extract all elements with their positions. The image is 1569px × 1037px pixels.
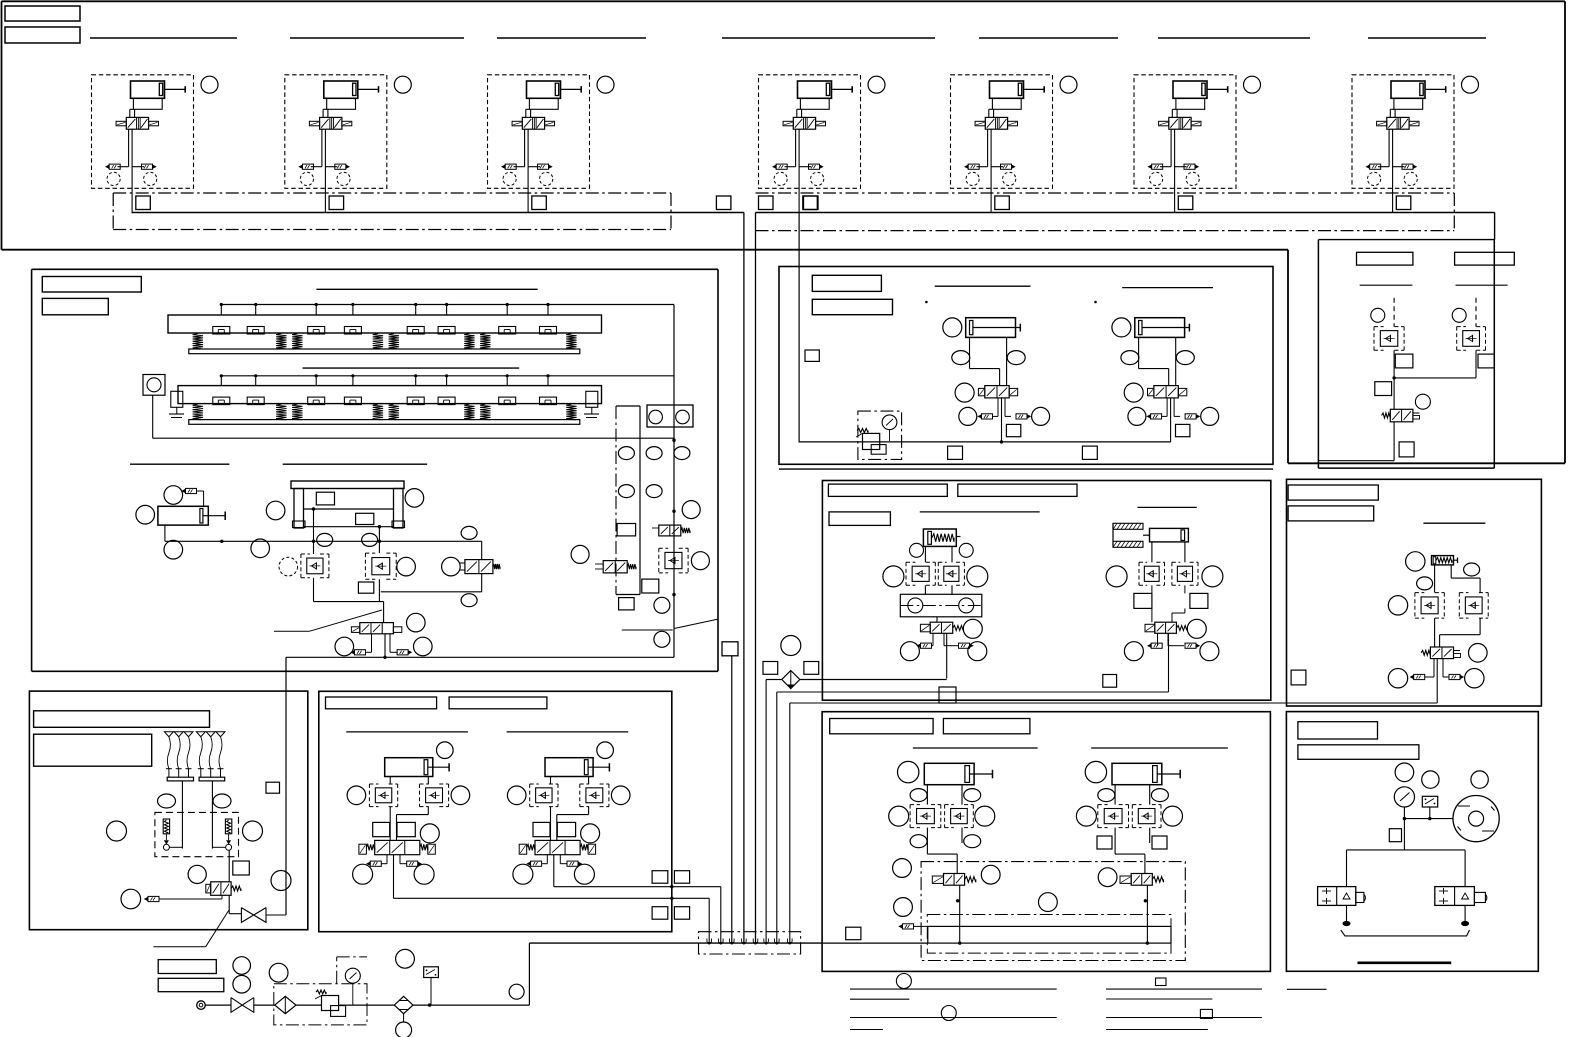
- callout circle CV1 a: [900, 642, 919, 661]
- press pipe rect: [928, 926, 1171, 943]
- callout circle D1 b: [959, 543, 973, 557]
- wire A1 to valve: [129, 109, 131, 117]
- vacuum filter left: [163, 819, 169, 834]
- tag square right of gripper box: [722, 642, 738, 656]
- flow control FV1 a: [1414, 674, 1425, 679]
- wire TV2 down: [1170, 398, 1172, 442]
- wire A5 to valve: [988, 109, 990, 117]
- wire D1 left: [924, 546, 926, 562]
- gripper piston block: [344, 397, 361, 405]
- CV2 branches: [1157, 633, 1159, 645]
- station 3 callout circle: [597, 76, 614, 93]
- manifold tag square 2: [329, 196, 344, 210]
- gripper head section box: [32, 268, 718, 270]
- callout circle B1: [943, 318, 962, 337]
- gripper piston block: [499, 397, 516, 405]
- wire V3 branch left: [524, 129, 526, 167]
- station 5 dashed enclosure: [951, 75, 1053, 189]
- lift frame top plate: [291, 481, 404, 489]
- flow control F5b: [1001, 164, 1012, 169]
- callout circle FV1 b: [1465, 669, 1484, 688]
- wire A4 to valve: [796, 109, 798, 117]
- regulator assembly dash-dot box: [858, 411, 902, 459]
- gripper stem wire: [547, 305, 549, 316]
- cylinder A6: [1173, 81, 1207, 98]
- flow control F7b: [1402, 164, 1413, 169]
- tag square blow: [1389, 829, 1401, 842]
- transfer internal pipe: [799, 441, 1171, 443]
- pilot check valve left: [301, 553, 310, 555]
- flow control F3a: [505, 164, 516, 169]
- vacuum label box 2: [34, 734, 152, 766]
- check valve fr-top right: [1457, 326, 1466, 328]
- callout circle blow b: [1422, 771, 1439, 788]
- check valve H2 left: [1098, 804, 1108, 806]
- wire H2 to valve: [1114, 828, 1116, 855]
- wire V2 down: [324, 129, 326, 212]
- check valve H2 right: [1132, 804, 1141, 806]
- callout circle 6a: [1150, 172, 1163, 185]
- wire D2 right: [1184, 542, 1186, 562]
- vacuum cups: [164, 732, 173, 737]
- gripper stem wire: [415, 376, 417, 386]
- callout circle vac c: [107, 821, 127, 841]
- cylinder A3 port block: [529, 98, 558, 109]
- press underline 2: [1091, 747, 1228, 749]
- station 7 callout circle: [1462, 76, 1479, 93]
- wire H2 ports: [1114, 785, 1116, 805]
- manifold tag square 4: [803, 196, 818, 210]
- cylinder A1: [131, 81, 165, 98]
- callout circle fr-top a: [1371, 308, 1385, 322]
- flow control F1b: [142, 164, 153, 169]
- check valve G2 left: [530, 783, 539, 785]
- solenoid valve V6: [1169, 117, 1191, 129]
- slide cylinder C1: [158, 506, 208, 525]
- lift valve LV1: [375, 840, 420, 854]
- blow thick underline: [1358, 961, 1452, 964]
- wire V7 branch left: [1388, 129, 1390, 167]
- leader line MV1: [274, 630, 310, 632]
- manifold pipe: [529, 942, 822, 944]
- manifold tag square 3: [532, 196, 547, 210]
- lift underline 2: [507, 731, 629, 733]
- manifold drop feet: [707, 939, 712, 944]
- wire shutoff to riser: [266, 914, 286, 916]
- vacuum stems: [181, 781, 183, 849]
- station 2 callout circle: [394, 76, 411, 93]
- station 3 dashed enclosure: [488, 75, 590, 189]
- clamp underline left: [920, 511, 1040, 513]
- check valve G1 left: [369, 783, 378, 785]
- callout circle fr-top b: [1452, 308, 1466, 322]
- D1 port frame: [900, 594, 982, 617]
- callout circle CV2 b: [1200, 642, 1219, 661]
- wire B2 left port: [1138, 337, 1140, 368]
- callout ellipse H2 a: [1098, 789, 1115, 802]
- flow control L2a: [531, 861, 542, 866]
- callout circle air d: [396, 949, 415, 968]
- tag squares G2: [533, 822, 550, 836]
- gripper spring: [464, 404, 474, 420]
- press section box: [822, 712, 1270, 972]
- gripper piston block: [499, 327, 516, 335]
- wire G2 mid: [550, 807, 552, 841]
- wire V5 down: [990, 129, 992, 212]
- vacuum shutoff valve: [241, 908, 253, 923]
- supply pipe: [205, 1004, 231, 1006]
- callout circle T2b: [1201, 407, 1219, 425]
- fr-top dash stub right: [1475, 298, 1477, 327]
- title block box 2: [5, 27, 80, 43]
- clamp valve CV1: [930, 622, 953, 633]
- row2 left end stopper: [171, 391, 183, 407]
- callout circle G1 a: [347, 786, 366, 805]
- leader line column: [622, 629, 673, 631]
- mechanism title underline right: [283, 463, 427, 465]
- wire G2 ports: [550, 777, 552, 785]
- gripper spring: [373, 334, 383, 350]
- transfer valve TV2: [1154, 386, 1178, 398]
- wire PV1 drop: [959, 885, 961, 943]
- callout circle H1 c: [889, 806, 909, 826]
- check valve H1 right: [945, 804, 954, 806]
- callout circles press left col: [893, 859, 912, 878]
- fr-top dash stub left: [1393, 298, 1395, 327]
- gripper spring: [464, 334, 474, 350]
- callout circle TV2: [1124, 383, 1143, 402]
- air source: [197, 1001, 206, 1010]
- tag square vac: [233, 861, 250, 875]
- port square below right check: [358, 582, 373, 593]
- flow control L1b: [407, 861, 418, 866]
- vacuum ejector dashed box: [155, 812, 239, 856]
- cylinder A7: [1391, 81, 1425, 98]
- MV1 left solenoid: [351, 627, 359, 633]
- callout ellipse frame b: [362, 533, 378, 546]
- callout circle on wire: [251, 539, 270, 558]
- transfer label box 2: [812, 299, 892, 314]
- wire LV2 down: [553, 855, 555, 887]
- gripper rail bar: [168, 315, 602, 333]
- wire right check down: [378, 579, 380, 601]
- gripper stem wire: [446, 305, 448, 316]
- gripper piston block: [308, 397, 325, 405]
- wire V2 branch left: [321, 129, 323, 167]
- tag square clamp bottom: [939, 687, 956, 703]
- supply pipe filter branch: [766, 679, 782, 681]
- flow control T1b: [1016, 414, 1027, 419]
- flow control CV2 a: [1151, 643, 1162, 648]
- lift cylinder G1: [385, 758, 433, 777]
- wire B2 right port: [1175, 337, 1177, 385]
- flow control L2b: [567, 861, 578, 866]
- callout circle MV1 fc a: [335, 637, 354, 656]
- gripper rail feed pipe: [221, 304, 674, 306]
- gripper stem wire: [255, 376, 257, 386]
- wire V5 branch left: [987, 129, 989, 167]
- wire V6 branch left: [1170, 129, 1172, 167]
- callout circle column e: [654, 631, 670, 647]
- right bus tag square b: [804, 196, 819, 210]
- gripper stem wire: [220, 305, 222, 316]
- tag square TV2: [1176, 424, 1190, 436]
- flow control CV1 b: [959, 643, 970, 648]
- callout circle G1: [437, 742, 454, 759]
- far right top box: [1317, 240, 1319, 469]
- flow control F5a: [968, 164, 979, 169]
- callout circle PV1: [981, 865, 1000, 884]
- gripper spring: [292, 404, 302, 420]
- callout circle relief: [442, 557, 461, 576]
- right bus drop wire: [755, 213, 757, 943]
- press label box 1: [830, 719, 933, 734]
- callout circle TV1: [955, 383, 974, 402]
- callout ellipse loop bottom: [461, 594, 477, 607]
- station 4 wire down to transfer box: [798, 213, 800, 442]
- wire E1 checks to valve: [1434, 618, 1436, 647]
- wire CV1 down: [946, 633, 948, 678]
- callout circle 1a: [107, 172, 120, 185]
- callout circle blow a: [1395, 763, 1414, 782]
- transfer underline 1: [935, 285, 1031, 287]
- callout circle G1 c: [420, 824, 439, 843]
- loop wire right: [481, 541, 483, 559]
- callout circle C1 left: [136, 505, 155, 524]
- solenoid valve V5: [985, 117, 1007, 129]
- lift label box 1: [326, 697, 437, 709]
- manifold dash-dot box: [699, 932, 801, 954]
- callout circle H2: [1085, 761, 1106, 782]
- callout circle L1b: [414, 864, 434, 884]
- wire D1 to valve: [924, 585, 926, 594]
- blow section box: [1286, 712, 1538, 972]
- gripper lower bar: [189, 420, 580, 425]
- air prep label box 1: [158, 960, 216, 974]
- gripper row 2 title underline: [303, 367, 520, 369]
- wire C1 head: [203, 491, 205, 506]
- callout circle D1 e: [908, 598, 923, 613]
- wire VV1 down: [228, 895, 230, 913]
- gripper spring: [193, 404, 203, 420]
- manual shutoff valve: [231, 998, 242, 1013]
- gripper stem wire: [547, 376, 549, 386]
- cylinder A6 port block: [1176, 98, 1205, 109]
- column port box with circles: [647, 405, 693, 427]
- title block box 1: [5, 6, 80, 21]
- blow nozzle drops: [1346, 905, 1348, 921]
- MV1 branch right: [389, 634, 391, 653]
- cylinder A4: [798, 81, 832, 98]
- column riser wire: [673, 305, 675, 658]
- lift valve LV2: [535, 840, 580, 854]
- trunk wire from clamp right unit: [777, 691, 1169, 693]
- callout ellipse B1 b: [1007, 351, 1025, 365]
- callout circle CV1 b: [968, 642, 987, 661]
- wire A2 to valve: [322, 109, 324, 117]
- wire G1 ports: [389, 777, 391, 785]
- check valve E1 right: [1459, 592, 1468, 594]
- flow control MV1 b: [397, 650, 408, 655]
- flow control F7a: [1370, 164, 1381, 169]
- cylinder A2 port block: [327, 98, 356, 109]
- vacuum valve VV1: [211, 882, 231, 896]
- check valve E1 left: [1415, 592, 1424, 594]
- station 1 dashed enclosure: [92, 75, 194, 189]
- callout ellipse B2 a: [1121, 351, 1139, 365]
- relief valve column a: [659, 525, 681, 536]
- callout circle column d: [654, 597, 670, 613]
- top band outer border: [2, 0, 1566, 2]
- callout circle 3a: [503, 172, 516, 185]
- gripper stem wire: [255, 305, 257, 316]
- fr-top shutoff valve: [1390, 409, 1413, 422]
- check valve G2 right: [580, 783, 589, 785]
- station 6 dashed enclosure: [1134, 75, 1236, 189]
- column tall frame: [615, 406, 617, 595]
- callout ellipse loop top: [461, 526, 477, 539]
- solenoid valve V4: [793, 117, 815, 129]
- callout circle 4b: [811, 172, 824, 185]
- wire E1 left: [1434, 565, 1436, 593]
- fr spring cylinder E1: [1432, 556, 1454, 565]
- blow valve right: [1435, 887, 1475, 906]
- wire V4 down: [798, 129, 800, 212]
- vacuum label box 1: [34, 711, 210, 728]
- gripper piston block: [213, 327, 230, 335]
- wire V4 branch left: [795, 129, 797, 167]
- callout circle air a: [233, 957, 251, 975]
- flow control F2a: [303, 164, 314, 169]
- transfer section box: [779, 267, 1273, 465]
- asterisk mark 1: [925, 301, 928, 304]
- wire left check down: [313, 578, 315, 602]
- wire FV1 down: [1436, 659, 1438, 703]
- gripper spring: [566, 334, 576, 350]
- callout circle frame left: [266, 501, 285, 520]
- flow control above C1: [186, 488, 197, 493]
- press dash-dot enclosure: [921, 862, 1185, 961]
- station 5 callout circle: [1060, 76, 1077, 93]
- check valve H1 left: [910, 804, 920, 806]
- callout circle 5a: [966, 172, 979, 185]
- solenoid valve V2: [320, 117, 342, 129]
- wire C1 to frame: [164, 525, 166, 541]
- clamp unit 2 hatched bracket: [1113, 523, 1143, 529]
- gripper spring: [566, 404, 576, 420]
- supply riser: [528, 943, 530, 1005]
- lift box exit squares: [652, 871, 668, 884]
- clamp label box 3: [829, 512, 890, 526]
- wire TV1 down: [1001, 398, 1003, 442]
- gripper piston block: [247, 397, 264, 405]
- flow control F1a: [109, 164, 120, 169]
- transfer box outer bottom line: [779, 468, 1273, 470]
- callout circle D1 f: [959, 598, 974, 613]
- manifold tag square 6: [1178, 196, 1193, 210]
- wire LV1 down: [393, 855, 395, 899]
- callout circle C1 top: [164, 486, 183, 505]
- solenoid valve V3: [522, 117, 544, 129]
- gripper spring: [389, 334, 399, 350]
- gripper stem wire: [315, 376, 317, 386]
- notes left group: [850, 988, 1057, 990]
- gripper lower bar: [189, 349, 580, 354]
- callout circle 5b: [1003, 172, 1016, 185]
- transfer underline 2: [1122, 287, 1213, 289]
- clamp cylinder D2: [1150, 528, 1189, 542]
- relief valve column b: [603, 561, 627, 573]
- wire V1 branch left: [128, 129, 130, 167]
- wire B1 left port: [969, 337, 971, 368]
- press valve PV2: [1131, 874, 1152, 886]
- fr valve FV1: [1430, 647, 1453, 659]
- gripper section label box 1: [42, 277, 141, 293]
- wire MV1 down: [384, 634, 386, 658]
- clamp label box 2: [958, 484, 1077, 496]
- callout circle vac e: [188, 865, 206, 883]
- transfer valve TV1: [985, 386, 1009, 398]
- wire TV1 branches: [997, 398, 999, 417]
- second filter: [394, 996, 413, 1013]
- callout circle D2 a: [1106, 566, 1127, 587]
- flow control F6a: [1152, 164, 1163, 169]
- callout circle 2b: [337, 172, 350, 185]
- cylinder A5: [990, 81, 1024, 98]
- callout circle 1b: [144, 172, 157, 185]
- callout circle C1 bottom: [164, 540, 183, 559]
- right bus dash-dot rail: [756, 192, 1455, 194]
- press exhaust fc: [914, 925, 928, 927]
- clamp underline right: [1138, 506, 1197, 508]
- gripper piston block: [540, 397, 557, 405]
- callout circle G2 b: [611, 786, 630, 805]
- callout circle column: [682, 501, 700, 519]
- callout circle CV2 a: [1124, 642, 1143, 661]
- asterisk mark 2: [1094, 301, 1097, 304]
- gripper spring: [276, 404, 286, 420]
- callout circle air b: [233, 975, 251, 993]
- flow control MV1 a: [355, 650, 366, 655]
- cylinder A1 port block: [133, 98, 162, 109]
- wire D2 left: [1151, 542, 1153, 562]
- wire G1 mid: [389, 807, 391, 841]
- gripper rail feed pipe: [221, 375, 674, 377]
- callout circle G1 b: [451, 786, 470, 805]
- callout circle D1 d: [967, 566, 988, 587]
- gripper piston block: [344, 327, 361, 335]
- callout circle E1 c: [1388, 596, 1407, 615]
- wire H1 to valve: [926, 828, 928, 855]
- fr-top label box 2: [1455, 252, 1515, 265]
- cylinder A4 port block: [800, 98, 829, 109]
- callout ellipse E1 b: [1417, 577, 1433, 590]
- port square column c: [619, 598, 635, 610]
- lift frame right guide: [394, 489, 404, 529]
- fr-top underline 2: [1456, 284, 1508, 286]
- pipe to riser: [413, 1004, 529, 1006]
- transfer cylinder B1: [966, 318, 1016, 338]
- press feed pipe: [822, 942, 928, 944]
- blow wires top: [1403, 807, 1405, 819]
- cylinder A3: [527, 81, 561, 98]
- wire E1 right: [1450, 565, 1452, 578]
- callout ellipse E1 a: [1464, 563, 1480, 576]
- callout circle air e: [509, 984, 524, 999]
- callout circle L2a: [513, 864, 533, 884]
- wire H1 ports: [926, 785, 928, 805]
- gripper stem wire: [506, 305, 508, 316]
